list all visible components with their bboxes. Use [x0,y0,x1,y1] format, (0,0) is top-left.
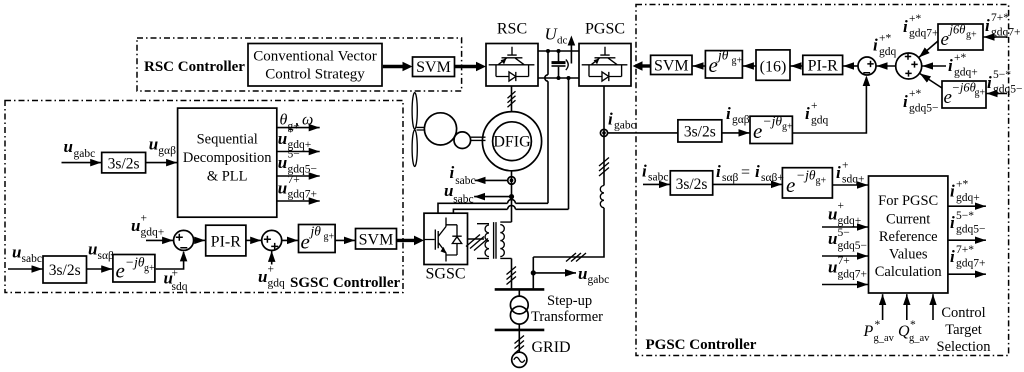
svg-text:+: + [172,268,179,280]
summing junction sum2 PGSC [896,53,922,79]
summing junction sum1 SGSC [174,230,194,250]
node isabc tap [508,177,516,185]
svg-text:sαβ: sαβ [722,172,739,184]
svg-text:e: e [116,259,125,283]
svg-text:+: + [811,100,818,112]
output ugdq+ [277,151,320,153]
SGSC output slashes [466,235,488,251]
svg-text:GRID: GRID [532,339,571,356]
wire igdq+ into sum2 [922,65,946,67]
svg-text:7+: 7+ [838,255,850,267]
step-up transformer circles [510,296,528,314]
block ejtheta PGSC [705,51,742,78]
block SVM (RSC) [413,57,455,77]
svg-text:e: e [709,53,718,77]
svg-text:SGSC: SGSC [425,266,465,283]
wire bus2 to grid source [518,330,520,353]
block ej6theta [938,24,983,50]
svg-text:Step-up: Step-up [547,293,592,309]
svg-text:θ: θ [280,112,288,129]
svg-text:i: i [726,104,731,123]
PGSC IGBT symbol [582,47,628,81]
block 3s/2s stator current [670,171,712,195]
output theta omega [277,127,320,129]
svg-text:−jθ: −jθ [125,254,145,269]
svg-text:PI-R: PI-R [808,58,839,75]
svg-text:i: i [948,56,953,75]
svg-text:g_av: g_av [874,333,895,344]
block PI-R SGSC [206,225,246,256]
converter PGSC box [579,21,631,87]
grid ac source [512,352,527,367]
svg-text:ω: ω [302,112,313,129]
series transformer primary winding [477,224,489,259]
svg-text:sabc: sabc [455,175,475,187]
block For PGSC Current Reference Values Calculation [869,176,948,293]
wire PGSC ac line down [533,86,604,288]
svg-text:gαβ: gαβ [158,145,176,157]
svg-text:gdq+: gdq+ [956,192,980,204]
stator 3-phase slashes [507,267,517,285]
svg-text:+: + [141,213,148,225]
svg-text:sabc: sabc [22,253,42,265]
block SVM PGSC [651,55,692,74]
wire igdq+ ref output [948,205,986,207]
svg-text:e: e [301,230,310,254]
wind turbine blades [412,93,417,130]
block SVM SGSC [356,229,397,250]
svg-text:Control: Control [941,305,985,321]
svg-text:+: + [268,264,275,276]
svg-text:*: * [910,319,916,331]
svg-text:Conventional Vector: Conventional Vector [253,49,376,65]
block Sequential Decomposition and PLL [178,108,277,217]
svg-text:3s/2s: 3s/2s [676,176,708,193]
wire ugdq into sum2 [271,251,273,265]
wire sum2 to ejtheta [282,239,298,241]
svg-text:Values: Values [889,247,928,263]
svg-text:Transformer: Transformer [531,309,603,325]
svg-text:gdq: gdq [811,115,829,127]
svg-text:+: + [288,125,295,137]
thick arrow SVM to RSC [455,65,477,68]
svg-text:e: e [941,29,949,50]
wire SGSC ac output [468,238,485,240]
svg-text:gabc: gabc [588,274,610,286]
converter RSC box [486,21,538,87]
block e-jtheta stator current [782,168,832,198]
wire ejtheta to SVM [335,239,355,241]
wire isabc measurement arrow [475,179,508,181]
svg-text:gdq+: gdq+ [838,215,862,227]
svg-text:gdq7+: gdq7+ [991,27,1021,39]
svg-text:g+: g+ [816,176,827,187]
svg-text:i: i [716,162,721,181]
summing junction sum1 PGSC [858,57,876,75]
wire to rotation block [87,268,113,270]
svg-text:+*: +* [879,33,891,45]
svg-text:i: i [608,110,613,129]
RSC IGBT symbol [489,47,535,81]
shaft to DFIG [471,137,486,140]
svg-text:u: u [64,137,73,156]
svg-text:u: u [131,216,140,235]
svg-text:sαβ: sαβ [98,250,115,262]
svg-text:gαβ: gαβ [732,114,750,126]
svg-text:i: i [755,162,760,181]
wire P reference up [882,294,884,320]
node igabc tap [600,129,607,136]
svg-text:gdq: gdq [268,278,286,290]
svg-text:u: u [278,153,287,172]
svg-text:+*: +* [954,52,966,64]
svg-text:gdq5−: gdq5− [838,240,868,252]
svg-text:(16): (16) [760,59,787,76]
stator wire series transformer to bus [511,258,513,288]
svg-text:u: u [828,229,837,248]
wire 3s/2s to rotation stator [713,183,782,185]
block 3s/2s (stator voltage) [43,256,87,283]
block ejtheta SGSC [299,225,336,253]
svg-text:Selection: Selection [937,339,992,355]
converter SGSC box [424,213,468,282]
svg-text:i: i [805,104,810,123]
svg-text:g+: g+ [732,56,743,67]
svg-text:3s/2s: 3s/2s [108,156,140,173]
dc link top rail [538,50,579,52]
svg-text:P: P [863,323,874,340]
wire 3s/2s to rotation [722,132,750,134]
svg-text:u: u [149,135,158,154]
svg-text:*: * [875,319,881,331]
turbine hub circle [424,113,456,145]
bus bar stator [495,288,545,291]
svg-text:Reference: Reference [879,229,938,245]
svg-text:gdq7+: gdq7+ [956,258,986,270]
wire ej6theta to sum2 [919,41,938,57]
thick arrow CVCS to SVM [383,65,403,68]
svg-text:gdq: gdq [879,46,897,58]
wire bus to transformer [518,289,520,296]
svg-text:SVM: SVM [416,59,451,76]
svg-text:i: i [950,182,955,201]
node ugabc tap [531,270,536,275]
wire 16 to ejtheta [743,65,756,67]
bus bar grid side [495,329,545,332]
svg-text:−jθ: −jθ [763,114,783,129]
svg-text:PI-R: PI-R [211,234,242,251]
wire Q reference up [906,294,908,320]
svg-text:u: u [278,129,287,148]
rotor wire RSC to DFIG [511,86,513,112]
wire PI-R to 16 [791,65,803,67]
wire sum1 to PI-R [843,65,858,67]
wire igdq feedback to sum1 [792,78,866,134]
rotor 3-phase slashes [508,91,516,107]
wire igabc to controller [608,132,678,134]
wire SGSC dc positive riser [438,51,548,213]
block e-jtheta (stator voltage) [113,255,155,283]
svg-text:3s/2s: 3s/2s [684,124,716,141]
svg-text:Calculation: Calculation [875,264,943,280]
block 3s/2s (grid voltage) [102,152,146,173]
svg-text:j6θ: j6θ [948,23,966,37]
SGSC controller dashed frame [5,101,403,293]
svg-text:u: u [578,264,587,283]
svg-text:g_av: g_av [909,333,930,344]
svg-text:sdq+: sdq+ [842,174,864,186]
svg-text:7+*: 7+* [991,12,1009,24]
svg-text:i: i [950,247,955,266]
PGSC line slashes [599,158,609,177]
svg-text:gdq7+: gdq7+ [909,28,939,40]
svg-text:g+: g+ [782,122,793,133]
svg-text:RSC: RSC [497,21,527,38]
wire usabc into 3s/2s [8,268,43,270]
svg-text:i: i [987,73,992,92]
svg-text:5−*: 5−* [993,69,1011,81]
wire ugabc into 3s/2s [62,162,102,164]
output ugdq7+ [277,200,320,202]
DFIG machine [482,112,541,171]
svg-text:3s/2s: 3s/2s [49,262,81,279]
svg-text:e: e [786,173,795,197]
svg-text:SVM: SVM [654,58,689,75]
svg-text:e: e [753,119,762,143]
wire ugdq5- input [822,255,868,257]
RSC controller dashed frame [137,38,462,91]
svg-text:PGSC: PGSC [585,21,625,38]
svg-text:dc: dc [557,35,568,47]
summing junction sum2 SGSC [262,230,282,250]
block e-jtheta grid current [750,116,792,143]
svg-text:Control Strategy: Control Strategy [265,67,365,83]
svg-text:+: + [842,160,849,172]
wire sum1 to PI-R [194,239,206,241]
svg-text:+: + [838,200,845,212]
wire ejtheta to SVM [693,65,706,67]
wire sum2 to sum1 [877,65,896,67]
wire ugabc measurement arrow [533,272,576,274]
svg-text:5−*: 5−* [956,210,974,222]
series transformer secondary winding [500,222,511,258]
svg-text:gabc: gabc [614,120,636,132]
block PI-R PGSC [803,55,843,74]
dc link bottom rail [538,77,579,79]
svg-text:jθ: jθ [716,48,729,63]
block 3s/2s grid current [678,120,722,142]
svg-text:u: u [828,205,837,224]
wire SGSC dc negative riser [453,78,568,213]
svg-text:gdq7+: gdq7+ [288,189,318,201]
grid 3-phase slashes [515,336,525,354]
slashes on PGSC to bus wire [566,253,586,262]
svg-text:gdq+: gdq+ [954,67,978,79]
svg-text:gdq5−: gdq5− [956,224,986,236]
svg-text:5−: 5− [288,149,300,161]
svg-text:i: i [642,162,647,181]
svg-text:+*: +* [909,13,921,25]
svg-text:−jθ: −jθ [796,168,816,183]
svg-text:& PLL: & PLL [207,169,248,185]
svg-text:Target: Target [945,322,982,338]
wire control target selection up [932,294,934,320]
svg-text:u: u [828,258,837,277]
stator wire DFIG to series transformer [511,171,513,222]
svg-text:gdq7+: gdq7+ [838,269,868,281]
svg-text:g+: g+ [966,30,977,41]
svg-text:i: i [950,213,955,232]
svg-text:i: i [985,16,990,35]
svg-text:g+: g+ [975,88,986,99]
svg-text:RSC Controller: RSC Controller [144,59,245,75]
svg-text:i: i [903,92,908,111]
wire igdq7+ ref output [948,273,986,275]
wire usdq to sum1 [156,252,184,269]
wire igdq5- input [987,93,1008,95]
svg-text:Decomposition: Decomposition [183,150,272,166]
svg-text:sαβ+: sαβ+ [761,172,784,184]
wire igdq7+* input [984,36,1008,38]
svg-text:gdq+: gdq+ [141,227,165,239]
junction dots on dc rails [546,49,550,53]
svg-text:,: , [295,112,299,129]
svg-text:u: u [12,243,21,262]
svg-text:i: i [873,36,878,55]
svg-text:i: i [903,17,908,36]
svg-text:u: u [444,181,453,200]
hub shaft [417,127,425,130]
svg-text:u: u [88,240,97,259]
PGSC controller dashed frame [636,5,1009,356]
wire usabc measurement arrow [474,196,509,198]
svg-text:7+: 7+ [288,174,300,186]
wire ugdq+ into sum1 [146,239,173,241]
svg-text:sdq: sdq [172,281,188,293]
svg-text:−j6θ: −j6θ [952,81,976,95]
block e-j6theta [942,81,986,108]
svg-text:Current: Current [886,212,930,228]
svg-text:u: u [258,267,267,286]
svg-text:sabc: sabc [648,172,668,184]
svg-text:i: i [836,163,841,182]
thick arrow SVM to PGSC [642,64,651,67]
wire isdq+ into calculation block [832,184,868,186]
series transformer core [494,222,496,259]
wire ugdq7+ input [822,284,868,286]
svg-text:gabc: gabc [74,148,96,160]
wire PI-R to sum2 [246,239,261,241]
svg-text:7+*: 7+* [956,244,974,256]
svg-text:i: i [450,163,455,182]
svg-text:g+: g+ [324,232,335,243]
Udc measurement arrow [570,44,572,64]
wire isabc into 3s/2s [643,183,670,185]
wire igdq5- ref output [948,239,986,241]
block equation 16 [756,50,790,80]
svg-text:Sequential: Sequential [197,132,258,148]
svg-text:u: u [278,179,287,198]
svg-text:+*: +* [956,179,968,191]
node usabc tap [509,194,514,199]
svg-text:5−: 5− [838,227,850,239]
block Conventional Vector Control Strategy [248,44,382,87]
output ugdq5- [277,175,320,177]
svg-text:SGSC Controller: SGSC Controller [290,275,400,291]
gearbox circle [454,132,471,149]
wire to sequential decomposition [146,162,178,164]
svg-text:gdq5−: gdq5− [993,84,1023,96]
svg-text:g+: g+ [144,263,155,274]
svg-text:SVM: SVM [359,231,394,248]
svg-text:jθ: jθ [309,224,322,239]
dc link capacitor [552,51,569,78]
svg-text:+*: +* [909,88,921,100]
svg-text:DFIG: DFIG [493,134,531,151]
thick arrow SVM to SGSC [397,239,415,242]
wire transformer to bus2 [518,324,520,330]
svg-text:For PGSC: For PGSC [878,193,938,209]
svg-text:gdq5−: gdq5− [909,103,939,115]
svg-text:PGSC Controller: PGSC Controller [646,337,757,353]
SGSC IGBT symbol [424,218,462,262]
PGSC filter inductor [600,186,604,208]
wire ugdq+ input [822,226,868,228]
svg-text:=: = [741,164,750,181]
wire e-j6theta to sum2 [920,74,942,89]
